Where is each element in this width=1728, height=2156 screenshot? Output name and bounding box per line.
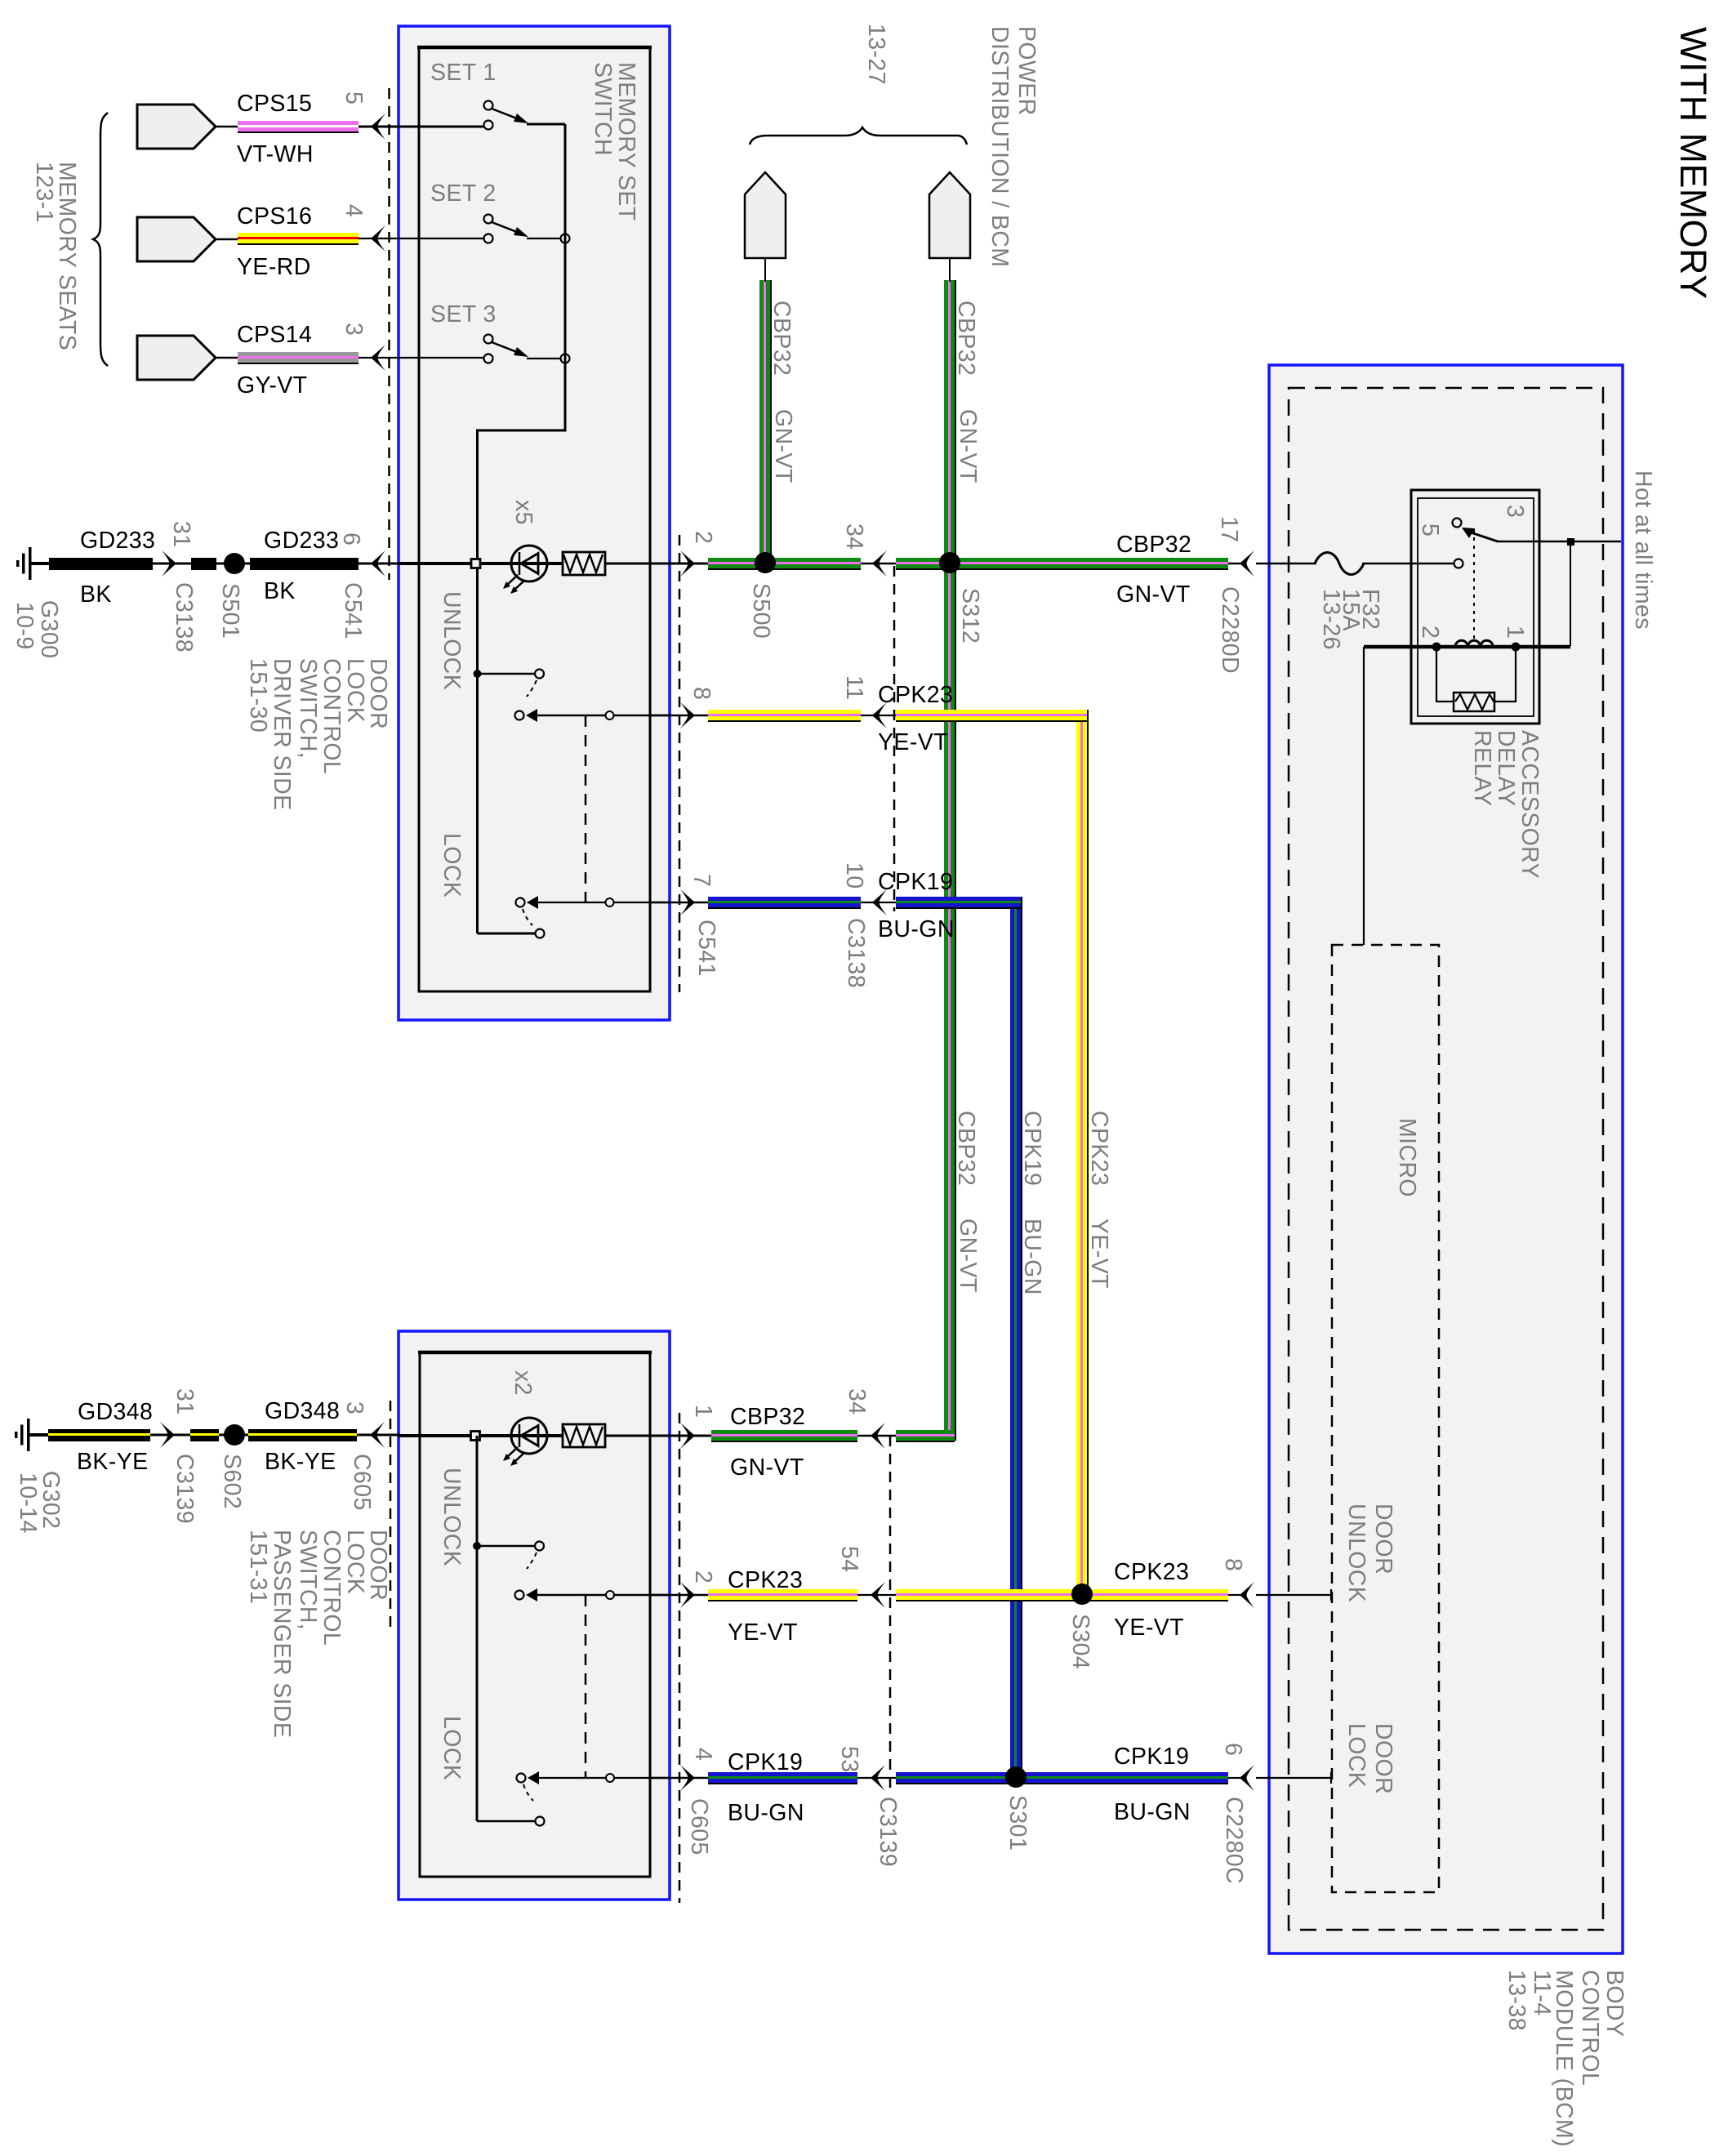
svg-text:BK-YE: BK-YE [265,1449,336,1475]
svg-text:BU-GN: BU-GN [1019,1218,1045,1295]
switch UNLOCK driver [474,670,482,678]
dashed connector line C3138 [893,566,896,911]
wire CPS15 VT-WH [216,126,239,128]
junction SET 3 on bus [561,354,570,363]
wire CPK19 BU-GN vertical [1010,897,1021,1783]
svg-text:6: 6 [1220,1743,1246,1756]
relay actuation dotted link [1473,529,1475,644]
box body control module BCM (blue) [1269,365,1623,1953]
wire lamp feed driver [399,562,512,565]
relay contact pin5 [1454,559,1463,568]
switch LOCK passenger [517,1774,526,1783]
svg-text:VT-WH: VT-WH [237,141,314,167]
svg-text:SET 3: SET 3 [430,301,497,327]
switch SET 3 [484,335,493,344]
svg-text:GN-VT: GN-VT [770,409,796,483]
switch SET 2 [484,215,493,224]
dashed connector line C3139 [889,1436,892,1788]
svg-text:13-27: 13-27 [863,24,889,85]
junction unlock output driver [606,711,614,719]
svg-text:S602: S602 [219,1454,245,1509]
wire to fuse F32 [1256,563,1316,565]
connector tag CPS14 to memory seats [137,336,216,380]
wire CBP32 GN-VT vertical right [944,280,955,1441]
wire CBP32 GN-VT driver lamp to S500 [708,558,861,568]
inner box driver switch [419,47,650,991]
svg-text:34: 34 [841,523,867,550]
svg-text:C3138: C3138 [843,918,869,988]
svg-text:DELAY: DELAY [1493,730,1519,806]
svg-text:DISTRIBUTION / BCM: DISTRIBUTION / BCM [986,26,1013,267]
svg-text:S301: S301 [1004,1795,1031,1851]
junction unlock output passenger [606,1591,614,1599]
svg-text:CPS16: CPS16 [237,203,312,229]
svg-text:6: 6 [338,532,364,546]
fuse F32 15A [1315,553,1364,575]
dashed inner box BCM [1289,388,1603,1930]
svg-text:CPS15: CPS15 [237,91,312,117]
svg-text:13-38: 13-38 [1503,1970,1530,2031]
svg-text:C2280C: C2280C [1221,1797,1247,1884]
svg-text:5: 5 [1417,523,1443,537]
relay parallel resistor [1436,647,1437,702]
box memory set switch / door lock control switch driver (blue) [399,26,670,1020]
wire door unlock bcm [1256,1594,1331,1596]
junction lamp bus driver [471,559,480,568]
wire GD233 BK middle segment [191,558,216,570]
arrow C2280D pin17 [1240,550,1254,577]
connector tag CPS16 to memory seats [137,217,216,261]
svg-text:x2: x2 [510,1370,536,1396]
svg-text:3: 3 [341,1401,367,1414]
svg-text:11: 11 [841,675,867,700]
wire CBP32 GN-VT vertical left [759,280,770,558]
svg-text:CPK23: CPK23 [1086,1111,1112,1186]
wire GD348 BK-YE middle segment [190,1429,219,1441]
svg-text:2: 2 [1417,626,1443,639]
junction SET 2 on bus [561,234,570,243]
arrow C605 pin1 exit [680,1423,695,1449]
splice S312 [939,552,960,573]
svg-text:CONTROL: CONTROL [1577,1970,1603,2086]
svg-text:YE-VT: YE-VT [878,729,948,755]
arrow C541 pin5 [371,114,385,140]
svg-text:CBP32: CBP32 [730,1404,805,1430]
svg-text:BU-GN: BU-GN [1114,1799,1191,1825]
svg-text:C541: C541 [340,582,366,639]
arrow C541 pin3 [371,345,385,371]
svg-text:DOOR: DOOR [1370,1503,1396,1575]
svg-text:CPK19: CPK19 [878,869,953,895]
svg-text:7: 7 [688,874,715,887]
svg-text:CBP32: CBP32 [768,301,795,376]
svg-text:54: 54 [836,1546,862,1573]
svg-text:PASSENGER SIDE: PASSENGER SIDE [269,1530,295,1738]
svg-text:13-26: 13-26 [1318,589,1344,650]
wire CPK23 YE-VT vertical [1076,710,1087,1600]
svg-text:YE-RD: YE-RD [237,254,311,280]
svg-text:YE-VT: YE-VT [1114,1615,1184,1641]
svg-text:CBP32: CBP32 [953,1111,979,1186]
wire GD233 BK to switch [250,558,359,570]
connector tag power distribution left [745,172,786,258]
svg-text:SET 2: SET 2 [430,180,497,207]
splice S301 [1005,1766,1027,1788]
svg-text:BK: BK [264,578,296,604]
ground G300 [16,547,50,580]
svg-text:MEMORY SET: MEMORY SET [613,62,639,221]
svg-text:GN-VT: GN-VT [955,409,981,483]
resistor lamp passenger [563,1424,605,1447]
arrow C2280C pin6 [1240,1765,1254,1791]
svg-text:2: 2 [690,531,716,544]
junction hot feed [1567,538,1574,546]
wire CPK19 BU-GN passenger lock row [650,1777,710,1780]
svg-text:CPK23: CPK23 [878,682,953,708]
svg-text:LOCK: LOCK [342,658,368,723]
wire CBP32 GN-VT passenger lamp [711,1430,857,1441]
splice S602 [224,1424,245,1445]
svg-text:31: 31 [171,1388,198,1415]
svg-text:WITH MEMORY: WITH MEMORY [1672,27,1714,300]
switch UNLOCK passenger [473,1542,481,1550]
svg-text:BK-YE: BK-YE [77,1449,149,1475]
svg-text:S304: S304 [1067,1614,1093,1669]
svg-text:YE-VT: YE-VT [1086,1218,1112,1289]
wire GD348 BK-YE to switch [248,1429,357,1441]
arrow C541 pin4 [371,225,385,252]
svg-text:UNLOCK: UNLOCK [439,1468,465,1566]
svg-text:POWER: POWER [1013,26,1040,116]
svg-text:CPS14: CPS14 [237,322,312,348]
svg-text:CBP32: CBP32 [1116,532,1191,558]
svg-text:8: 8 [688,687,715,700]
dashed box MICRO [1332,945,1439,1892]
wire CPK23 YE-VT passenger unlock row [650,1594,710,1597]
wire CBP32 GN-VT S500 to BCM [896,558,1228,568]
brace power distribution [750,127,967,145]
svg-text:C3139: C3139 [875,1797,901,1867]
svg-text:ACCESSORY: ACCESSORY [1516,730,1543,879]
arrow C541 pin8 exit [680,702,695,728]
svg-text:BU-GN: BU-GN [728,1800,804,1826]
wire CPS14 GY-VT [216,357,239,359]
svg-text:BU-GN: BU-GN [878,916,955,942]
splice S501 [224,553,245,574]
brace memory seats [93,113,108,366]
svg-text:5: 5 [341,91,367,105]
svg-text:SWITCH,: SWITCH, [295,658,321,759]
svg-text:CBP32: CBP32 [953,301,979,376]
svg-text:GN-VT: GN-VT [1116,581,1191,608]
svg-text:BODY: BODY [1601,1970,1628,2037]
switch SET 1 [484,101,493,110]
indicator lamp x5 (LED) [512,562,563,565]
svg-text:8: 8 [1220,1558,1246,1571]
relay accessory delay (outer box) [1411,490,1539,724]
svg-text:4: 4 [690,1748,716,1761]
arrow C541 pin7 exit [680,889,695,915]
svg-text:123-1: 123-1 [31,162,57,223]
arrow C605 pin3 [370,1422,385,1448]
svg-text:GD233: GD233 [80,528,155,554]
splice S304 [1071,1584,1093,1605]
ground G302 [15,1419,48,1451]
wire hot at all times pin3 [1497,541,1621,543]
svg-text:11-4: 11-4 [1529,1970,1555,2016]
svg-text:DRIVER SIDE: DRIVER SIDE [269,658,295,811]
wire internal bus passenger [476,1436,479,1821]
mechanical link passenger switch [585,1595,587,1778]
svg-text:C2280D: C2280D [1217,586,1243,674]
svg-text:LOCK: LOCK [342,1530,368,1594]
arrow C3139 pin34 [871,1423,885,1449]
svg-text:3: 3 [341,323,367,336]
connector tag CPS15 to memory seats [137,105,216,149]
box door lock control switch passenger (blue) [399,1331,670,1900]
svg-text:DOOR: DOOR [1370,1723,1396,1794]
svg-text:C605: C605 [349,1454,375,1511]
svg-text:GY-VT: GY-VT [237,372,307,399]
junction lamp bus passenger [471,1432,480,1441]
svg-text:S312: S312 [957,588,983,644]
svg-text:YE-VT: YE-VT [728,1619,798,1646]
splice S500 [755,552,776,573]
arrow C3138 pin31 right [162,550,176,577]
resistor lamp driver [563,552,605,575]
connector tag power distribution right [929,172,970,258]
svg-text:10: 10 [841,862,867,889]
svg-text:C3138: C3138 [171,582,197,653]
relay switch arm [1453,519,1462,528]
wire CPK23 YE-VT driver unlock [650,715,710,717]
svg-text:BK: BK [80,581,112,608]
svg-text:151-31: 151-31 [245,1530,271,1604]
svg-text:UNLOCK: UNLOCK [439,591,465,690]
junction lock output passenger [606,1774,614,1782]
svg-text:GN-VT: GN-VT [730,1454,804,1481]
svg-text:S501: S501 [217,583,243,639]
svg-text:CPK19: CPK19 [1114,1744,1189,1770]
svg-text:CPK23: CPK23 [728,1567,803,1593]
wire GD348 BK-YE ground segment [46,1434,49,1437]
arrow C3138 pin10 [872,889,887,915]
svg-text:C3139: C3139 [171,1454,198,1524]
arrow C3138 pin34 [872,550,887,577]
svg-text:CPK19: CPK19 [728,1749,803,1775]
svg-text:1: 1 [1502,626,1528,639]
svg-text:SWITCH: SWITCH [590,62,616,156]
svg-text:31: 31 [168,521,194,548]
arrow C3139 pin31 right [160,1422,175,1448]
arrow C541 pin6 [371,550,385,577]
svg-text:LOCK: LOCK [439,833,465,898]
svg-text:LOCK: LOCK [1343,1723,1369,1788]
inner box passenger switch [420,1352,650,1877]
arrow C605 pin2 exit [680,1582,695,1608]
svg-text:CONTROL: CONTROL [318,658,345,774]
svg-text:4: 4 [341,204,367,217]
svg-text:53: 53 [836,1746,862,1773]
relay coil [1364,645,1570,649]
arrow C605 pin4 exit [680,1765,695,1791]
svg-text:34: 34 [844,1388,870,1415]
wire micro to relay coil [1363,647,1365,945]
svg-text:RELAY: RELAY [1469,730,1495,806]
svg-text:CPK19: CPK19 [1019,1111,1045,1186]
svg-text:GD348: GD348 [265,1398,340,1424]
svg-text:GD348: GD348 [78,1399,153,1425]
svg-text:GN-VT: GN-VT [955,1218,981,1293]
svg-text:x5: x5 [510,500,537,525]
svg-text:1: 1 [690,1405,716,1418]
svg-text:CONTROL: CONTROL [318,1530,345,1646]
svg-text:2: 2 [690,1570,716,1584]
svg-text:C605: C605 [686,1798,712,1855]
dashed connector line C541 left side [388,88,390,580]
svg-text:LOCK: LOCK [439,1716,465,1780]
svg-text:3: 3 [1502,505,1528,518]
wire GD233 BK ground segment [47,563,51,565]
svg-text:C541: C541 [693,920,719,977]
svg-text:UNLOCK: UNLOCK [1343,1503,1369,1602]
svg-text:MICRO: MICRO [1394,1118,1420,1197]
dashed connector line C605 right side [679,1413,681,1903]
arrow C3138 pin11 [872,702,887,728]
svg-text:Hot at all times: Hot at all times [1630,470,1656,630]
arrow C541 pin2 exit [680,550,695,577]
svg-text:10-9: 10-9 [11,602,38,650]
svg-text:151-30: 151-30 [245,658,271,733]
wire lamp feed passenger [399,1434,512,1437]
indicator lamp x2 (LED) [512,1434,563,1437]
switch LOCK driver [516,898,525,907]
wire CPS16 YE-RD [216,238,239,241]
svg-text:CPK23: CPK23 [1114,1559,1189,1585]
arrow C2280C pin8 [1240,1582,1254,1608]
arrow C3139 pin54 [871,1582,885,1608]
svg-text:S500: S500 [748,583,774,639]
dashed connector line C541 right side [679,535,681,992]
wire door lock bcm [1256,1777,1331,1779]
mechanical link driver switch [585,715,587,902]
svg-text:17: 17 [1216,516,1242,543]
svg-text:SWITCH,: SWITCH, [295,1530,321,1630]
junction lock output driver [606,898,614,906]
wire internal bus memory set switch [564,124,567,431]
arrow C3139 pin53 [871,1765,885,1791]
svg-text:10-14: 10-14 [15,1472,41,1534]
dashed connector line C605 left side [390,1401,392,1629]
svg-text:G300: G300 [36,600,62,658]
svg-text:GD233: GD233 [264,528,339,554]
svg-text:SET 1: SET 1 [430,60,497,86]
wire CPK19 BU-GN driver lock [650,902,710,904]
